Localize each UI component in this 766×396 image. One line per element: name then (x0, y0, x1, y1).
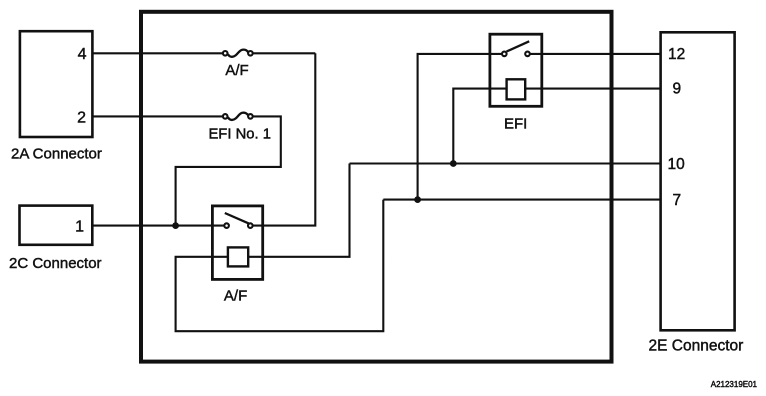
relay A/F switch left contact (224, 223, 229, 228)
wire relay EFI coil right to pin 9 (525, 88, 660, 90)
node C junction dot on 10-line (450, 160, 457, 167)
node B junction dot on 7-line (414, 196, 421, 203)
relay EFI switch left contact (502, 52, 507, 57)
svg-text:9: 9 (673, 80, 682, 97)
wire pin1 to relay A/F switch (93, 225, 225, 227)
wire pin2 to fuse EFI No.1 (93, 115, 223, 117)
svg-text:A/F: A/F (224, 287, 247, 304)
wire relay EFI switch right to pin 12 (530, 53, 661, 55)
connector 2C (20, 206, 93, 245)
svg-text:2A Connector: 2A Connector (11, 145, 102, 162)
fuse A/F right terminal (248, 51, 253, 56)
relay A/F box (212, 206, 262, 280)
svg-text:EFI: EFI (504, 116, 527, 133)
svg-text:4: 4 (78, 46, 87, 63)
connector 2E (661, 32, 735, 330)
wire relay A/F coil right up to 10-line (248, 164, 349, 257)
relay A/F switch right contact (248, 223, 253, 228)
wire pin4 to fuse A/F (93, 52, 223, 54)
wire relay A/F coil left to bottom loop (176, 200, 384, 332)
fuse A/F element (228, 50, 249, 57)
wire 10-line to pin 10 (350, 162, 661, 164)
fuse EFI No.1 right terminal (248, 114, 253, 119)
svg-text:A/F: A/F (225, 62, 248, 79)
relay A/F switch blade (225, 213, 249, 223)
fuse EFI No.1 left terminal (223, 114, 228, 119)
svg-text:2E Connector: 2E Connector (649, 338, 744, 355)
connector 2A (20, 31, 93, 137)
wire fuse A/F down to relay A/F switch (253, 53, 316, 225)
svg-text:2: 2 (77, 109, 86, 126)
svg-text:EFI No. 1: EFI No. 1 (208, 127, 271, 143)
relay EFI box (490, 34, 542, 106)
fuse EFI No.1 element (228, 113, 249, 120)
fuse A/F left terminal (223, 51, 228, 56)
relay EFI switch right contact (525, 52, 530, 57)
svg-text:10: 10 (668, 156, 686, 173)
wire fuse EFI No.1 output to node A (176, 116, 281, 225)
svg-text:A212319E01: A212319E01 (711, 380, 758, 389)
node A junction dot (172, 222, 179, 229)
wire 7-line to pin 7 (383, 199, 660, 201)
svg-text:7: 7 (673, 192, 682, 209)
relay EFI switch blade (507, 41, 530, 51)
svg-text:12: 12 (668, 46, 685, 63)
svg-text:2C Connector: 2C Connector (9, 255, 102, 272)
wire fuse A/F output (253, 52, 315, 54)
svg-text:1: 1 (75, 218, 84, 235)
relay EFI coil (507, 79, 526, 99)
wire relay EFI coil left down to 10-line (453, 89, 506, 164)
relay A/F coil (228, 247, 248, 266)
wire relay EFI switch left down to 7-line (418, 54, 502, 200)
junction box border (141, 12, 612, 362)
